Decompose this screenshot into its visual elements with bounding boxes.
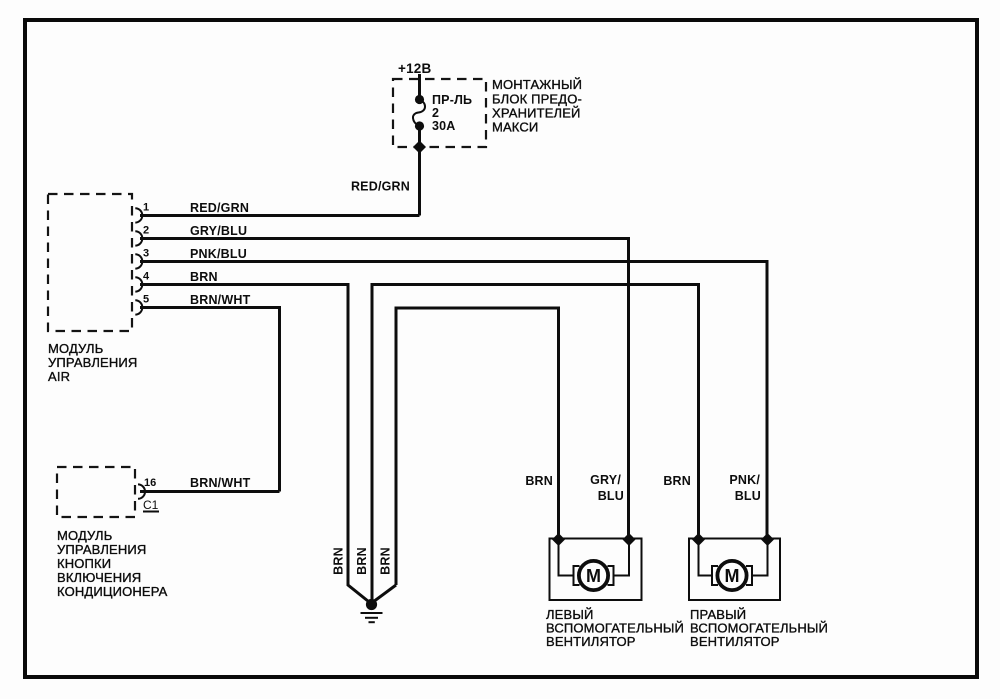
svg-text:2: 2 [432, 106, 439, 120]
svg-text:МАКСИ: МАКСИ [492, 120, 538, 135]
svg-text:КОНДИЦИОНЕРА: КОНДИЦИОНЕРА [57, 584, 168, 599]
svg-text:GRY/BLU: GRY/BLU [190, 224, 247, 238]
svg-text:M: M [725, 566, 740, 586]
svg-text:GRY/: GRY/ [590, 473, 621, 487]
svg-text:BRN: BRN [663, 474, 691, 488]
svg-text:M: M [586, 566, 601, 586]
svg-text:3: 3 [143, 248, 149, 260]
svg-text:2: 2 [143, 225, 149, 237]
svg-text:+12В: +12В [398, 61, 431, 76]
svg-text:ХРАНИТЕЛЕЙ: ХРАНИТЕЛЕЙ [492, 106, 581, 121]
svg-text:16: 16 [144, 477, 156, 489]
svg-text:RED/GRN: RED/GRN [351, 180, 410, 194]
svg-text:1: 1 [143, 202, 149, 214]
svg-text:BLU: BLU [598, 489, 624, 503]
svg-text:BRN/WHT: BRN/WHT [190, 293, 251, 307]
svg-text:ВКЛЮЧЕНИЯ: ВКЛЮЧЕНИЯ [57, 570, 141, 585]
svg-text:БЛОК ПРЕДО-: БЛОК ПРЕДО- [492, 92, 582, 107]
svg-text:AIR: AIR [48, 369, 70, 384]
svg-text:BLU: BLU [735, 489, 761, 503]
svg-text:МОДУЛЬ: МОДУЛЬ [57, 528, 112, 543]
svg-text:УПРАВЛЕНИЯ: УПРАВЛЕНИЯ [57, 542, 146, 557]
svg-text:5: 5 [143, 294, 149, 306]
svg-text:BRN: BRN [332, 547, 346, 575]
svg-text:30А: 30А [432, 119, 456, 133]
svg-text:BRN: BRN [190, 270, 218, 284]
svg-text:МОДУЛЬ: МОДУЛЬ [48, 341, 103, 356]
svg-text:ВЕНТИЛЯТОР: ВЕНТИЛЯТОР [690, 634, 780, 649]
svg-text:RED/GRN: RED/GRN [190, 201, 249, 215]
svg-text:BRN/WHT: BRN/WHT [190, 476, 251, 490]
svg-text:ВЕНТИЛЯТОР: ВЕНТИЛЯТОР [546, 634, 636, 649]
svg-text:PNK/BLU: PNK/BLU [190, 247, 247, 261]
svg-text:BRN: BRN [525, 474, 553, 488]
svg-text:C1: C1 [143, 498, 159, 512]
svg-text:ПР-ЛЬ: ПР-ЛЬ [432, 93, 472, 107]
svg-text:BRN: BRN [379, 547, 393, 575]
svg-text:УПРАВЛЕНИЯ: УПРАВЛЕНИЯ [48, 355, 137, 370]
svg-text:КНОПКИ: КНОПКИ [57, 556, 111, 571]
svg-text:МОНТАЖНЫЙ: МОНТАЖНЫЙ [492, 77, 582, 92]
svg-text:BRN: BRN [355, 547, 369, 575]
svg-text:PNK/: PNK/ [729, 473, 760, 487]
svg-text:4: 4 [143, 271, 150, 283]
